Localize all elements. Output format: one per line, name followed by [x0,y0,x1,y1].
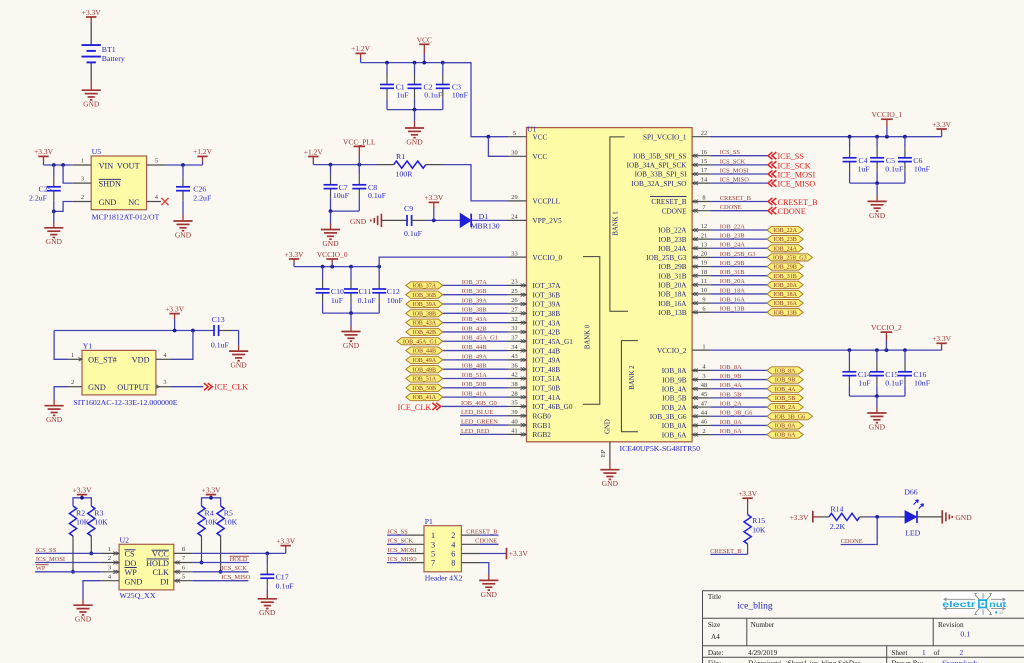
svg-text:IOB_39A: IOB_39A [462,297,488,304]
capacitor C26 [182,165,184,177]
svg-text:IOB_50B: IOB_50B [462,381,487,388]
pin 27 IOT_38B [508,312,527,314]
svg-text:BT1: BT1 [102,45,116,54]
svg-text:IOB_46B_G0: IOB_46B_G0 [461,400,497,407]
svg-text:2: 2 [960,649,964,657]
wire ICS_SCK [711,164,768,166]
svg-text:IOB_36B: IOB_36B [413,293,436,299]
port IOB_16A (right) [767,299,803,306]
wire R4 to HOLD [201,536,203,563]
pin 15 IOB_34A_SPI_SCK [692,164,711,166]
svg-text:nut: nut [989,600,1006,609]
svg-text:GND: GND [75,615,92,624]
wire IOB_44B [443,350,508,352]
capacitor C9 [381,219,407,221]
resistor R1 [378,164,394,166]
junction [52,163,56,167]
svg-text:42: 42 [511,372,517,379]
svg-text:OE_ST#: OE_ST# [88,356,117,365]
diode D1 MBR130 [460,214,471,228]
pin 11 IOB_20A [692,284,711,286]
wire ICS_MOSI [35,562,101,564]
wire P1 GND [480,563,489,575]
wire IOB_49A [443,359,508,361]
junction [885,135,889,139]
svg-text:37: 37 [511,334,518,341]
svg-text:ICS_SS: ICS_SS [36,547,57,554]
pin 21 IOB_23B [692,238,711,240]
wire PLL rail [313,164,377,166]
svg-text:IOB_51A: IOB_51A [412,377,436,383]
svg-text:IOB_24A: IOB_24A [773,246,797,252]
junction [209,496,213,500]
port IOB_24A (right) [767,245,803,252]
capacitor C14 [848,350,850,362]
pin 2 IOB_6A [692,434,711,436]
ground (U2) [73,605,92,615]
svg-text:1: 1 [922,649,926,657]
svg-text:IOB_42B: IOB_42B [413,330,436,336]
svg-text:33: 33 [511,250,517,257]
svg-text:3: 3 [108,565,111,572]
svg-text:LED_RED: LED_RED [461,428,490,435]
svg-text:ICE40UP5K-SG48ITR50: ICE40UP5K-SG48ITR50 [620,444,701,453]
ground (C1 C2 C3) [405,128,424,138]
pin 37 IOT_45A_G1 [508,340,527,342]
svg-text:VCCPLL: VCCPLL [533,198,561,206]
svg-text:0.1uF: 0.1uF [424,91,443,100]
wire top rail [361,62,471,64]
svg-text:IOB_20A: IOB_20A [720,278,746,285]
junction [329,163,333,167]
junction [903,135,907,139]
wire [876,183,878,195]
pin 13 IOB_24A [692,247,711,249]
svg-text:2: 2 [81,194,84,201]
svg-text:IOT_38B: IOT_38B [533,310,561,318]
junction [200,561,204,565]
svg-text:3: 3 [702,373,705,380]
wire IOB_48B [443,368,508,370]
wire LED to GND [917,516,942,518]
capacitor C12 [378,267,380,279]
svg-text:IOT_48B: IOT_48B [533,366,561,374]
svg-text:C11: C11 [359,287,372,296]
svg-text:VCCIO_2: VCCIO_2 [657,347,687,355]
pin 12 IOB_22A [692,229,711,231]
FPGA U1 ICE40UP5K-SG48ITR50 [527,128,693,442]
port IOB_23B (right) [767,236,803,243]
wire SHDN [63,165,72,183]
svg-text:IOB_13B: IOB_13B [720,306,745,313]
svg-text:IOB_8A: IOB_8A [720,364,742,371]
svg-text:11: 11 [701,278,707,285]
pin 46 IOB_0A [692,424,711,426]
svg-text:ICS_SCK: ICS_SCK [720,158,746,165]
svg-text:IOB_24A: IOB_24A [658,245,687,253]
svg-text:IOB_25B_G3: IOB_25B_G3 [646,254,687,262]
svg-text:+3.3V: +3.3V [276,536,296,545]
resistor R4 [198,506,205,536]
svg-text:IOB_44B: IOB_44B [413,349,436,355]
wire [238,331,240,346]
wire IOB_16A [711,302,767,304]
junction [875,181,879,185]
pin 40 RGB1 [508,424,527,426]
svg-text:RGB1: RGB1 [533,422,552,430]
svg-text:CDONE: CDONE [475,538,497,545]
svg-text:18: 18 [701,269,707,276]
wire +3.3V (P1) [480,553,507,555]
pin 43 IOT_49A [508,359,527,361]
svg-text:GND: GND [481,590,498,599]
svg-text:U2: U2 [120,536,130,545]
svg-text:OUTPUT: OUTPUT [117,383,149,392]
svg-text:.in: .in [998,610,1003,615]
port IOB_31B (right) [767,272,803,279]
svg-text:ICS_SCK: ICS_SCK [388,538,414,545]
junction [432,219,436,223]
ground (C4 C5 C6) [868,201,887,211]
wire R2 R3 tops [73,498,91,506]
junction [413,61,417,65]
junction [181,163,185,167]
pin 1 VCCIO_2 [692,349,711,351]
wire ICS_SS (P1) [387,534,405,536]
junction [80,496,84,500]
svg-text:C12: C12 [387,287,400,296]
svg-text:IOT_46B_G0: IOT_46B_G0 [533,403,573,411]
svg-text:ICE_SS: ICE_SS [778,152,805,161]
wire ICS_MISO (P1) [387,562,405,564]
svg-text:W25Q_XX: W25Q_XX [120,591,156,600]
svg-text:+3.3V: +3.3V [165,304,185,313]
svg-text:IOB_31B: IOB_31B [720,269,745,276]
svg-text:1: 1 [108,546,111,553]
svg-text:IOT_45A_G1: IOT_45A_G1 [533,338,574,346]
svg-text:36: 36 [511,362,517,369]
svg-text:1: 1 [81,158,84,165]
svg-text:CRESET_B: CRESET_B [651,198,686,206]
svg-text:31: 31 [511,325,517,332]
wire VIN [44,164,73,166]
wire IOB_50B [443,387,508,389]
wire IOB_43A [443,322,508,324]
svg-text:0.1uF: 0.1uF [885,379,904,388]
wire ICS_SS [711,155,768,157]
capacitor C4 [849,137,851,148]
wire WP [35,571,101,573]
pin 18 IOB_31B [692,275,711,277]
svg-text:6: 6 [182,565,185,572]
wire R4 R5 tops [202,498,221,506]
svg-text:IOB_0A: IOB_0A [720,419,742,426]
ground (VCCIO_0 caps) [341,332,360,342]
pin 38 IOT_50B [508,387,527,389]
junction [191,329,195,333]
wire IOB_2A [711,406,767,408]
junction [441,61,445,65]
port IOB_44B (left) [406,347,443,354]
svg-text:10: 10 [701,287,707,294]
resistor R5 [217,506,224,536]
svg-text:R3: R3 [94,508,103,517]
port IOB_8A (right) [767,367,803,374]
svg-text:R2: R2 [76,508,85,517]
svg-text:0.1uF: 0.1uF [358,296,377,305]
pin 8 CRESET_B [692,201,711,203]
svg-text:GND: GND [99,198,117,207]
wire VCCIO_2 rail [711,349,942,351]
wire VCCIO_0 rail [294,266,379,268]
wire LED_GREEN [460,424,508,426]
svg-text:C5: C5 [886,156,895,165]
capacitor C7 [330,165,332,175]
svg-text:0.1: 0.1 [960,629,970,638]
wire [330,211,332,223]
junction [903,348,907,352]
svg-text:HOLD: HOLD [146,559,169,568]
svg-text:IOB_22A: IOB_22A [773,228,797,234]
junction [875,515,879,519]
junction [875,135,879,139]
svg-text:IOB_29B: IOB_29B [659,263,687,271]
svg-text:1: 1 [71,352,74,359]
pin 30 VCC [508,155,527,157]
svg-text:IOT_44B: IOT_44B [533,347,561,355]
port IOB_5B (right) [767,394,803,401]
wire R2 to WP [72,536,74,572]
svg-text:CS: CS [125,550,135,559]
capacitor C2 [414,63,416,75]
resistor R3 [88,506,95,536]
svg-text:GND: GND [88,383,106,392]
ground (Y1) [45,406,64,416]
svg-text:IOB_13B: IOB_13B [659,309,687,317]
svg-text:IOB_36B: IOB_36B [462,288,487,295]
svg-text:6: 6 [451,550,455,559]
svg-text:1uF: 1uF [331,296,344,305]
wire VCC pin30 [488,137,508,157]
ground (EP) [600,470,619,480]
svg-text:IOB_25B_G3: IOB_25B_G3 [720,251,756,258]
wire bottom C7 C8 [331,210,360,212]
wire LED_BLUE [460,415,508,417]
svg-text:C4: C4 [858,156,867,165]
svg-text:Revision: Revision [938,621,964,629]
svg-text:IOB_48B: IOB_48B [413,367,436,373]
svg-text:HOLD: HOLD [230,556,248,563]
svg-text:41: 41 [511,428,517,435]
junction [422,61,426,65]
pin 3 IOB_9B [692,379,711,381]
svg-text:C17: C17 [276,572,289,581]
wire IOB_0A [711,424,767,426]
svg-text:GND: GND [350,217,367,226]
port IOB_36B (left) [406,291,443,298]
svg-text:10K: 10K [224,518,238,527]
svg-text:VIN: VIN [99,161,114,170]
pin 41 RGB2 [508,433,527,435]
port ICE_SS [768,152,772,159]
svg-text:EP: EP [600,449,607,457]
wire IOB_20A [711,284,767,286]
svg-text:Sheet: Sheet [891,649,907,657]
wire IOB_5B [711,397,767,399]
regulator U5 MCP1812AT-012/OT [91,156,146,210]
svg-text:GND: GND [230,361,247,370]
LED D66 [897,516,905,518]
pin 25 IOT_36B [508,294,527,296]
pin 47 IOB_2A [692,406,711,408]
wire VPP_2V5 [471,219,508,221]
junction [173,329,177,333]
svg-text:IOT_43A: IOT_43A [533,319,562,327]
svg-text:IOB_8A: IOB_8A [662,367,688,375]
ground power symbol (LED) [941,510,943,523]
capacitor C3 [442,63,444,75]
svg-text:IOB_22A: IOB_22A [658,227,687,235]
pin 22 SPI_VCCIO_1 [692,136,711,138]
svg-text:VCCIO_0: VCCIO_0 [317,250,348,259]
wire IOB_51A [443,378,508,380]
svg-text:+3.3V: +3.3V [34,147,54,156]
port IOB_29B (right) [767,263,803,270]
wire ICS_SCK [193,571,249,573]
svg-text:IOB_25B_G3: IOB_25B_G3 [773,256,807,262]
wire bottom of caps [387,109,443,111]
svg-text:0.1uF: 0.1uF [404,229,423,238]
svg-text:CDONE: CDONE [778,207,806,216]
wire R3 to CS [90,536,92,553]
svg-text:10nF: 10nF [452,91,469,100]
svg-text:C6: C6 [913,156,922,165]
wire ICS_MOSI (P1) [387,553,405,555]
svg-text:ICE_MISO: ICE_MISO [778,180,816,189]
svg-text:21: 21 [701,232,707,239]
svg-text:10K: 10K [76,518,90,527]
wire bottom VCCIO_0 caps [323,312,380,314]
svg-text:6: 6 [702,305,705,312]
svg-text:VDD: VDD [132,356,150,365]
ground (C26) [173,221,192,231]
svg-text:DI: DI [160,577,169,586]
svg-text:IOB_44B: IOB_44B [462,344,487,351]
capacitor C15 [876,350,878,362]
svg-text:IOB_2A: IOB_2A [775,405,796,411]
wire ICE_CLK [171,386,204,388]
capacitor C6 [904,137,906,148]
svg-text:5: 5 [513,130,516,137]
svg-text:2: 2 [108,555,111,562]
flash U2 W25Q_XX [119,544,174,590]
port IOB_38B (left) [406,310,443,317]
junction [349,311,353,315]
svg-text:45: 45 [701,391,707,398]
port ICE_SCK [768,161,772,168]
svg-text:GND: GND [406,137,423,146]
wire VCCIO_0 to U1 [379,257,508,267]
svg-text:2.2uF: 2.2uF [193,194,212,203]
svg-text:IOT_41A: IOT_41A [533,394,562,402]
svg-text:IOB_23B: IOB_23B [720,233,745,240]
pin 39 RGB0 [508,415,527,417]
svg-text:C25: C25 [39,185,52,194]
port IOB_43A (left) [406,319,443,326]
svg-text:+1.2V: +1.2V [351,44,371,53]
svg-text:IOB_38B: IOB_38B [462,307,487,314]
wire [53,211,55,222]
capacitor C16 [904,350,906,362]
junction [848,135,852,139]
svg-text:IOB_29B: IOB_29B [773,265,796,271]
svg-text:0.1uF: 0.1uF [885,165,904,174]
svg-text:+3.3V: +3.3V [82,8,102,17]
svg-text:R15: R15 [752,516,765,525]
svg-text:IOB_43A: IOB_43A [462,316,488,323]
wire CRESET_B (R15) [747,544,749,555]
svg-text:IOB_0A: IOB_0A [662,422,688,430]
ground (C25) [44,228,63,238]
port IOB_20A (right) [767,281,803,288]
svg-text:IOB_29B: IOB_29B [720,260,745,267]
svg-text:IOB_6A: IOB_6A [662,431,688,439]
svg-text:10nF: 10nF [387,296,404,305]
svg-text:IOB_13B: IOB_13B [773,310,796,316]
junction [329,209,333,213]
port IOB_48B (left) [406,366,443,373]
pin 26 IOT_39A [508,303,527,305]
junction [71,570,75,574]
bank 2 bracket [621,341,638,432]
port IOB_0A (right) [767,422,803,429]
svg-text:IOB_8A: IOB_8A [775,369,796,375]
junction [52,210,56,214]
battery BT1 [82,44,101,46]
junction [487,135,491,139]
junction [413,108,417,112]
svg-text:VCC_PLL: VCC_PLL [343,137,376,146]
resistor R15 [744,515,751,544]
junction [875,394,879,398]
junction [265,552,269,556]
svg-text:IOB_23B: IOB_23B [659,236,687,244]
capacitor C13 [213,330,216,332]
svg-text:of: of [934,649,941,657]
svg-text:VCCIO_0: VCCIO_0 [533,254,563,262]
svg-text:10nF: 10nF [914,165,931,174]
wire ICS_MOSI [711,173,768,175]
wire IOB_41A [443,396,508,398]
wire VDD rail [54,330,213,332]
svg-text:GND: GND [322,239,339,248]
svg-text:2.2uF: 2.2uF [29,194,48,203]
port IOB_45A_G1 (left) [397,338,443,345]
svg-text:electr: electr [942,600,976,609]
svg-text:C10: C10 [331,287,344,296]
svg-text:ICE_SCK: ICE_SCK [778,161,811,170]
port ICE_MISO [768,180,772,187]
svg-text:C13: C13 [212,315,225,324]
electronut logo [941,593,1008,616]
svg-text:10K: 10K [94,518,108,527]
wire [425,219,460,221]
svg-text:VCCIO_1: VCCIO_1 [871,110,902,119]
pin 35 IOT_46B_G0 [508,405,527,407]
junction [61,163,65,167]
svg-text:IOT_51A: IOT_51A [533,375,562,383]
port IOB_25B_G3 (right) [767,254,813,261]
